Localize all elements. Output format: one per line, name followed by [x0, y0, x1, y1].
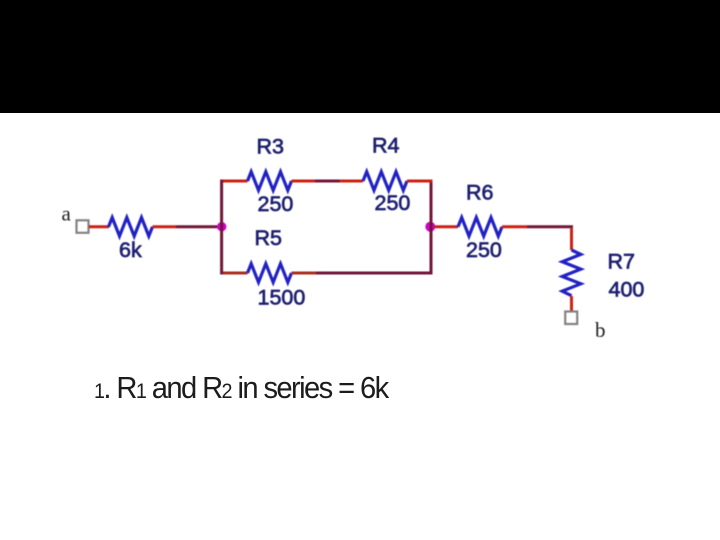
wire: top-left to R3 — [223, 180, 248, 183]
resistor R5 — [248, 264, 292, 283]
node a label — [62, 202, 72, 226]
label R7 — [608, 250, 635, 274]
wire: R4 to top-right corner — [407, 180, 433, 183]
resistor R1+R2 combined 6k — [109, 218, 153, 237]
junction node right (magenta dot) — [425, 222, 435, 232]
wire: R7 to terminal b — [570, 296, 573, 312]
value 250 (R6) — [466, 238, 502, 262]
label R3 — [257, 135, 285, 159]
resistor R3 — [248, 172, 292, 191]
wire: R5 to bottom-right (red part) — [292, 272, 317, 275]
wire: bottom-left to R5 — [223, 272, 248, 275]
svg-text:R6: R6 — [466, 181, 494, 205]
terminal a — [77, 220, 89, 233]
node b label — [595, 318, 606, 342]
label R6 — [466, 181, 494, 205]
wire: R6 right (red part) — [502, 225, 527, 228]
terminal b — [565, 312, 577, 325]
value label 6k — [119, 238, 142, 262]
wire: R3 to R4 (red part 2) — [340, 180, 364, 183]
svg-text:250: 250 — [375, 191, 411, 215]
svg-text:250: 250 — [466, 238, 502, 262]
value 400 (R7) — [609, 278, 645, 302]
value 250 (R3) — [258, 192, 294, 216]
wire: resistor 6k to node (red part) — [153, 225, 177, 228]
svg-text:R3: R3 — [257, 135, 285, 159]
wire: corner down to R7 — [570, 228, 573, 250]
title bar (black) — [0, 0, 720, 113]
label R4 — [372, 134, 400, 158]
resistor R7 (vertical) — [562, 250, 581, 296]
label R5 — [255, 226, 283, 250]
svg-text:R4: R4 — [372, 134, 400, 158]
wire: R5 to bottom-right (maroon part) — [316, 272, 433, 275]
svg-text:1500: 1500 — [258, 286, 306, 310]
caption: 1. R1 and R2 in series = 6k — [94, 370, 388, 406]
junction node left (magenta dot) — [217, 222, 226, 231]
wire: terminal a to resistor 6k — [89, 225, 109, 228]
wire: left vertical of parallel box — [220, 180, 223, 275]
wire: R3 to R4 (maroon middle) — [315, 180, 340, 183]
svg-text:R5: R5 — [255, 226, 283, 250]
value 250 (R4) — [375, 191, 411, 215]
resistor R6 — [458, 218, 502, 237]
svg-text:250: 250 — [258, 192, 294, 216]
wire: right junction to R6 — [434, 225, 458, 228]
wire: resistor 6k to node (maroon part) — [176, 225, 222, 228]
wire: R6 to corner (maroon part) — [527, 225, 573, 228]
wire: R3 to R4 (red part) — [292, 180, 316, 183]
svg-text:400: 400 — [609, 278, 645, 302]
svg-text:b: b — [595, 318, 606, 342]
wire: right vertical of parallel box — [430, 183, 433, 275]
value 1500 (R5) — [258, 286, 306, 310]
svg-text:a: a — [62, 202, 72, 226]
svg-text:6k: 6k — [119, 238, 142, 262]
svg-text:R7: R7 — [608, 250, 635, 274]
resistor R4 — [363, 172, 407, 191]
